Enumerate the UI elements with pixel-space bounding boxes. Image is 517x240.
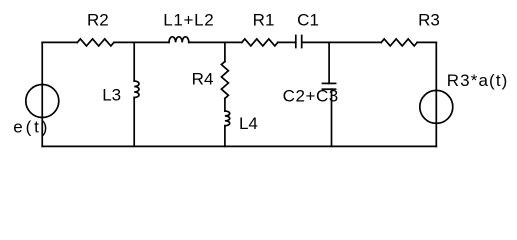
wire R1 to C1 [278,41,295,43]
capacitor C2+C3 bottom plate [322,88,337,90]
wire L1+L2 to R4 node [189,41,242,43]
svg-text:R4: R4 [192,69,214,88]
resistor R1 [242,39,278,46]
resistor R3 [381,39,417,46]
svg-text:C1: C1 [297,11,319,30]
svg-text:L1+L2: L1+L2 [163,11,214,30]
wire R4 branch upper [224,42,226,61]
inductor L1+L2 [169,37,189,43]
wire top-left segment [42,41,77,43]
svg-text:e(t): e(t) [13,118,50,137]
resistor R2 [77,39,114,46]
source R3*a(t) circle [420,90,453,123]
svg-text:R2: R2 [87,11,109,30]
wire R4 to L4 [224,98,226,111]
wire C2+C3 branch lower [331,89,333,146]
svg-text:R3*a(t): R3*a(t) [447,71,509,90]
wire L4 branch lower [224,126,226,147]
inductor L3 [134,81,139,98]
wire right vertical [435,42,437,146]
svg-text:R1: R1 [253,11,275,30]
svg-text:L3: L3 [102,86,121,105]
wire L3 branch upper [133,42,135,81]
wire R2 to L3 node [114,41,169,43]
svg-text:R3: R3 [418,11,440,30]
wire C2+C3 branch upper [328,42,330,83]
capacitor C1 [296,36,302,48]
capacitor C2+C3 top plate [323,82,336,84]
source e(t) circle [26,85,59,118]
wire bottom [42,145,436,147]
wire L3 branch lower [133,98,135,147]
resistor R4 [221,62,228,99]
wire left vertical [41,42,43,146]
svg-text:L4: L4 [239,114,258,133]
wire R3 to top-right corner [417,41,436,43]
wire C1 to C2+C3 node [303,41,382,43]
inductor L4 [225,111,230,126]
